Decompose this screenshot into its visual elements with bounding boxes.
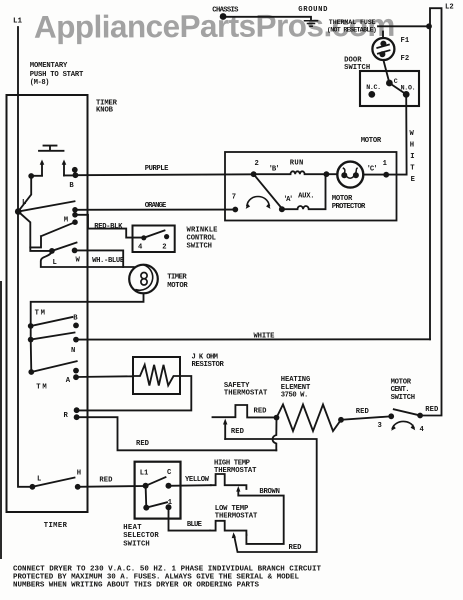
svg-text:TIMER: TIMER: [44, 522, 68, 530]
wire purple: [75, 173, 253, 176]
node cent switch 4: [417, 413, 423, 419]
wrinkle control switch box: [133, 226, 175, 253]
node wrinkle 2: [164, 234, 169, 239]
node L junction: [15, 208, 22, 215]
svg-text:YELLOW: YELLOW: [185, 476, 210, 484]
svg-text:N.O.: N.O.: [401, 85, 416, 92]
contact blade L-W: [52, 243, 77, 251]
motor centrifugal arc: [247, 197, 269, 206]
svg-text:F2: F2: [401, 55, 410, 63]
svg-text:HEATING: HEATING: [281, 376, 311, 384]
node L contact lower: [49, 248, 55, 254]
svg-text:L: L: [22, 199, 26, 207]
svg-text:L: L: [53, 259, 57, 267]
resistor zigzag: [133, 365, 180, 386]
node TM pivot: [28, 323, 34, 329]
node heat selector 1: [166, 504, 172, 510]
svg-text:TIMER: TIMER: [167, 273, 187, 281]
svg-text:3: 3: [378, 422, 382, 430]
red arrow into safety thermostat: [224, 424, 226, 440]
svg-text:L2: L2: [445, 3, 454, 11]
svg-text:BROWN: BROWN: [259, 488, 280, 496]
heat selector blade lower: [146, 502, 167, 507]
high temp thermostat: [211, 474, 247, 489]
node B contact: [73, 323, 79, 329]
node M contact: [72, 219, 78, 225]
safety thermostat: [213, 405, 277, 417]
wire L junction down-feed: [18, 212, 52, 251]
svg-text:TM: TM: [35, 310, 45, 318]
motor run winding: [254, 171, 327, 174]
wire red-blk: [75, 215, 144, 238]
door switch blade: [389, 83, 406, 94]
motor protector contacts: [347, 177, 354, 179]
node heat selector L1: [143, 483, 149, 489]
svg-text:W: W: [76, 257, 81, 265]
wire timer motor return: [31, 293, 144, 326]
node push right contact upper: [72, 167, 78, 173]
node door C: [386, 80, 393, 87]
node heat selector lower left: [143, 505, 149, 511]
svg-text:N: N: [71, 347, 75, 355]
svg-text:'C': 'C': [367, 166, 378, 174]
heat selector box: [135, 462, 181, 519]
node push right contact B: [73, 172, 79, 178]
svg-text:W: W: [410, 130, 415, 138]
svg-text:MOTOR: MOTOR: [167, 282, 188, 290]
svg-text:3750 W.: 3750 W.: [281, 392, 309, 400]
motor aux winding: [282, 174, 326, 209]
node door N.C.: [368, 91, 375, 98]
svg-text:AUX.: AUX.: [298, 193, 315, 201]
svg-text:HEAT: HEAT: [123, 524, 142, 532]
svg-text:RESISTOR: RESISTOR: [192, 361, 225, 369]
node M terminal red-blk: [72, 212, 78, 218]
wire TM column: [30, 326, 32, 340]
node TM pivot lower: [28, 369, 34, 375]
ground symbol: [305, 21, 318, 27]
svg-text:THERMOSTAT: THERMOSTAT: [215, 512, 258, 520]
svg-text:2: 2: [255, 160, 259, 168]
svg-text:A: A: [66, 377, 71, 385]
contact blade TM-A: [31, 361, 76, 372]
node timer H bottom: [75, 484, 81, 490]
push-to-start button bar: [39, 146, 64, 151]
svg-text:SWITCH: SWITCH: [391, 394, 416, 402]
node A terminal upper: [73, 368, 79, 374]
svg-text:ELEMENT: ELEMENT: [281, 384, 311, 392]
svg-text:THERMOSTAT: THERMOSTAT: [224, 390, 268, 398]
wire cent switch to L2 rail: [420, 8, 441, 415]
svg-text:CONNECT DRYER TO 230 V.A.C. 50: CONNECT DRYER TO 230 V.A.C. 50 HZ. 1 PHA…: [13, 565, 321, 573]
svg-text:RED: RED: [425, 406, 439, 414]
wire timer motor feed: [41, 252, 134, 267]
contact blade N: [31, 333, 75, 340]
wire blue: [169, 507, 211, 530]
node heating left junction: [274, 415, 280, 421]
motor box: [225, 152, 397, 221]
svg-text:ORANGE: ORANGE: [145, 202, 167, 210]
svg-text:TM: TM: [36, 383, 46, 391]
wire door switch to motor 1: [386, 94, 406, 174]
wire TM column lower: [30, 340, 33, 372]
node heat selector C: [166, 483, 172, 489]
node M terminal orange: [72, 207, 78, 213]
wire red to low temp loop: [225, 439, 317, 552]
svg-text:4: 4: [420, 426, 425, 434]
svg-text:C: C: [167, 469, 172, 477]
node heating right: [338, 417, 344, 423]
svg-text:M: M: [64, 217, 68, 225]
wire push-left feed to L junction: [18, 176, 31, 212]
node A terminal lower: [73, 374, 79, 380]
wire orange: [75, 209, 235, 211]
door switch box: [360, 71, 419, 106]
brown tap arrow: [238, 490, 283, 544]
wire protector leads: [326, 173, 386, 175]
wire hop to heating junction: [273, 418, 277, 450]
node motor 2: [251, 171, 257, 177]
node motor junction: [324, 171, 330, 177]
svg-text:NUMBERS WHEN WRITING ABOUT THI: NUMBERS WHEN WRITING ABOUT THIS DRYER OR…: [13, 582, 259, 590]
heat selector column: [145, 486, 148, 508]
svg-text:(NOT RESETABLE): (NOT RESETABLE): [327, 26, 377, 33]
wire white neutral: [76, 338, 430, 340]
wire L1 rail: [18, 27, 32, 487]
svg-text:GROUND: GROUND: [298, 6, 328, 14]
contact blade TM-B: [31, 317, 73, 326]
svg-text:B: B: [69, 182, 74, 190]
node R terminal lower: [74, 414, 80, 420]
svg-text:C: C: [394, 78, 398, 85]
svg-text:'A': 'A': [283, 196, 293, 204]
svg-text:PUSH TO START: PUSH TO START: [30, 71, 84, 79]
svg-text:RED-BLK: RED-BLK: [94, 223, 123, 231]
svg-text:7: 7: [232, 194, 236, 202]
svg-text:N.C.: N.C.: [366, 84, 381, 91]
svg-text:PROTECTED BY MAXIMUM 30 A. FUS: PROTECTED BY MAXIMUM 30 A. FUSES. ALWAYS…: [13, 573, 299, 581]
node motor 1: [383, 172, 389, 178]
svg-text:THERMAL FUSE: THERMAL FUSE: [329, 19, 376, 26]
node push left contact: [28, 173, 34, 179]
svg-text:RED: RED: [231, 428, 245, 436]
timer bottom blade L-H: [32, 478, 74, 487]
node protector right: [353, 172, 359, 178]
wrinkle blade: [144, 230, 165, 237]
fuse element: [377, 45, 389, 54]
svg-text:SWITCH: SWITCH: [123, 540, 150, 548]
svg-text:SELECTOR: SELECTOR: [123, 532, 159, 540]
svg-text:L1: L1: [13, 17, 23, 25]
contact blade M lower: [30, 222, 75, 247]
node protector left: [341, 172, 347, 178]
node W terminal: [72, 248, 78, 254]
node N terminal: [73, 337, 79, 343]
svg-text:RED: RED: [289, 544, 303, 552]
svg-text:RED: RED: [254, 408, 268, 416]
node fuse top: [380, 41, 386, 47]
svg-text:SWITCH: SWITCH: [187, 242, 213, 250]
left paper edge streak: [0, 281, 2, 559]
svg-text:(M-8): (M-8): [30, 79, 50, 87]
motor blade 2-A: [254, 174, 281, 207]
svg-text:T: T: [410, 165, 415, 173]
svg-text:MOTOR: MOTOR: [332, 195, 353, 203]
wire heating to cent switch: [341, 416, 391, 420]
node timer L bottom: [30, 484, 36, 490]
svg-text:I: I: [410, 153, 414, 161]
motor cent switch blade: [394, 409, 420, 415]
svg-text:RUN: RUN: [290, 160, 304, 168]
svg-text:PURPLE: PURPLE: [145, 165, 169, 173]
node wrinkle 4: [141, 235, 146, 240]
motor cent switch arc: [392, 421, 414, 428]
svg-text:KNOB: KNOB: [96, 107, 114, 115]
svg-text:L: L: [37, 476, 41, 484]
node chassis: [220, 13, 227, 20]
svg-text:THERMOSTAT: THERMOSTAT: [214, 467, 257, 475]
svg-text:CENT.: CENT.: [391, 386, 410, 394]
node door N.O.: [403, 91, 410, 98]
svg-text:WH.-BLUE: WH.-BLUE: [92, 257, 125, 265]
svg-text:E: E: [411, 176, 416, 184]
wire red to heat selector: [78, 485, 146, 488]
svg-text:MOMENTARY: MOMENTARY: [30, 62, 68, 70]
heat selector blade L1-C: [146, 477, 166, 486]
svg-text:CONTROL: CONTROL: [187, 234, 217, 242]
svg-text:2: 2: [162, 244, 166, 252]
svg-text:R: R: [64, 412, 69, 420]
svg-text:'B': 'B': [269, 166, 280, 174]
node R terminal upper: [74, 407, 80, 413]
svg-text:MOTOR: MOTOR: [361, 137, 382, 145]
svg-text:WHITE: WHITE: [254, 333, 276, 341]
svg-text:L1: L1: [140, 470, 149, 478]
wire push contacts: [31, 174, 75, 176]
wire fuse to door switch C: [383, 60, 389, 83]
svg-text:MOTOR: MOTOR: [391, 378, 412, 386]
contact blade L upper: [18, 201, 74, 211]
svg-text:H: H: [410, 142, 414, 150]
svg-text:SWITCH: SWITCH: [344, 64, 370, 72]
svg-text:4: 4: [138, 244, 143, 252]
wire chassis to ground: [225, 17, 311, 21]
node cent switch 3: [388, 413, 394, 419]
svg-text:RED: RED: [136, 440, 150, 448]
node N pivot: [28, 337, 34, 343]
node fuse bottom: [379, 51, 385, 57]
node L2 junction: [426, 23, 432, 29]
wire wh-blue: [75, 250, 124, 267]
push-to-start plunger arrows: [42, 164, 64, 176]
wire A to resistor: [76, 375, 133, 378]
svg-text:H: H: [77, 470, 81, 478]
wire yellow: [169, 484, 211, 487]
svg-text:1: 1: [383, 160, 388, 168]
timer box: [7, 95, 88, 512]
wire fuse stub: [382, 32, 384, 39]
heating element zigzag: [277, 405, 342, 432]
node motor A contact: [279, 206, 285, 212]
motor protector circle: [337, 162, 363, 188]
svg-text:RED: RED: [356, 408, 370, 416]
wire thermal fuse to L2: [378, 25, 429, 27]
timer motor circle: [129, 265, 158, 294]
resistor box J K OHM: [133, 357, 180, 394]
svg-text:F1: F1: [401, 37, 410, 45]
low temp thermostat: [210, 521, 246, 535]
svg-text:CHASSIS: CHASSIS: [212, 7, 239, 15]
svg-text:BLUE: BLUE: [187, 521, 203, 529]
svg-text:1: 1: [168, 499, 173, 507]
svg-text:RED: RED: [99, 476, 113, 484]
svg-text:WRINKLE: WRINKLE: [187, 227, 219, 235]
svg-text:PROTECTOR: PROTECTOR: [332, 203, 366, 211]
wire R lower red: [77, 417, 277, 450]
wire resistor to R: [77, 376, 192, 410]
svg-text:B: B: [73, 315, 78, 323]
fuse F1 F2 circle: [372, 38, 394, 60]
node motor 7: [232, 207, 238, 213]
watermark AppliancePartsPros.com: [34, 7, 395, 45]
